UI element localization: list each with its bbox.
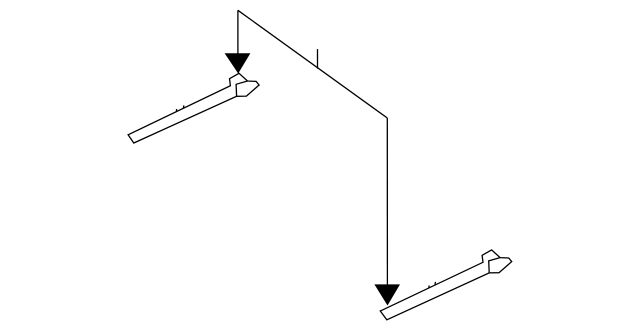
molding strip upper-left tab nib 2 xyxy=(182,105,185,108)
leader line diagonal branch xyxy=(238,10,387,118)
molding strip lower-right tab nib 1 xyxy=(428,286,430,289)
molding strip lower-right outline xyxy=(380,250,511,320)
leader line vertical to upper arrow xyxy=(237,10,239,56)
molding strip lower-right clip fold lines xyxy=(489,258,500,273)
molding strip upper-left clip fold lines xyxy=(236,81,247,96)
molding strip upper-left tab nib 1 xyxy=(175,109,177,112)
arrow head lower xyxy=(374,284,400,305)
molding strip lower-right tab nib 2 xyxy=(434,282,437,285)
leader line vertical to lower arrow xyxy=(386,118,388,287)
molding strip upper-left outline xyxy=(128,73,259,143)
arrow head upper xyxy=(225,53,251,73)
tick mark on diagonal leader xyxy=(317,49,319,69)
